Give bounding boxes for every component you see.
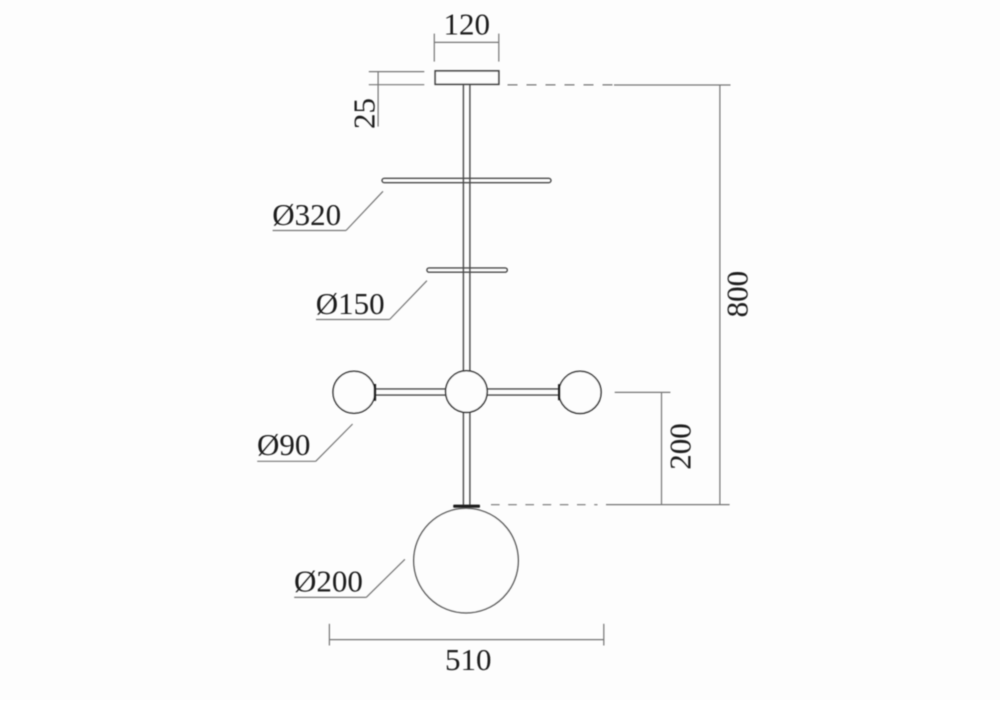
- svg-text:Ø200: Ø200: [294, 564, 363, 599]
- svg-text:120: 120: [444, 6, 491, 41]
- svg-text:510: 510: [445, 642, 492, 677]
- svg-text:200: 200: [663, 423, 698, 470]
- svg-text:Ø150: Ø150: [316, 286, 385, 321]
- svg-text:800: 800: [720, 271, 755, 318]
- svg-text:25: 25: [347, 98, 382, 129]
- svg-text:Ø320: Ø320: [272, 197, 341, 232]
- svg-text:Ø90: Ø90: [257, 427, 310, 462]
